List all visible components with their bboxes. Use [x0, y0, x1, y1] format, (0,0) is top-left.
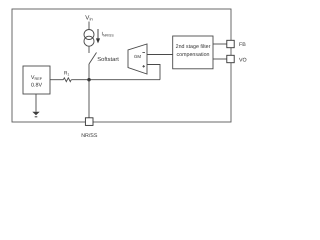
box 2nd stage filter compensation [173, 36, 213, 69]
svg-text:GM: GM [134, 54, 141, 59]
wire Vin to current source [88, 22, 90, 31]
pin NR/SS [85, 118, 93, 126]
svg-text:FB: FB [239, 42, 246, 48]
node junction dot [87, 78, 90, 81]
svg-text:VREF: VREF [31, 75, 43, 81]
wire amp minus input to compensation box [147, 54, 173, 56]
switch Softstart [89, 53, 97, 65]
svg-text:INR/SS: INR/SS [102, 32, 115, 38]
wire compensation box to VO pin [213, 58, 227, 60]
ground [32, 112, 39, 115]
pin VO [227, 55, 234, 62]
wire resistor to node and on to feedback loop [71, 79, 160, 81]
svg-text:VO: VO [239, 57, 247, 63]
svg-text:R1: R1 [64, 71, 70, 77]
svg-text:Softstart: Softstart [97, 56, 119, 63]
pin FB [227, 40, 234, 47]
border frame [12, 9, 231, 122]
wire node down to NR/SS pin [88, 80, 90, 118]
svg-text:Vin: Vin [85, 14, 93, 21]
wire switch to node [88, 64, 90, 80]
wire VREF to resistor [50, 79, 63, 81]
svg-text:NR/SS: NR/SS [81, 133, 98, 139]
resistor R1 [63, 78, 71, 82]
op-amp GM (error amplifier) [128, 44, 147, 74]
wire current source to switch [88, 46, 90, 53]
svg-text:0.8V: 0.8V [31, 83, 42, 89]
wire VREF to ground [35, 94, 37, 112]
wire compensation box to FB pin [213, 43, 227, 45]
box VREF 0.8V [23, 66, 50, 94]
svg-text:compensation: compensation [177, 52, 210, 58]
current source I_NR/SS (two interlocking circles) [84, 30, 94, 47]
wire up to amplifier plus input [147, 65, 160, 80]
svg-text:2nd stage filter: 2nd stage filter [176, 44, 211, 50]
current arrow [96, 29, 100, 43]
